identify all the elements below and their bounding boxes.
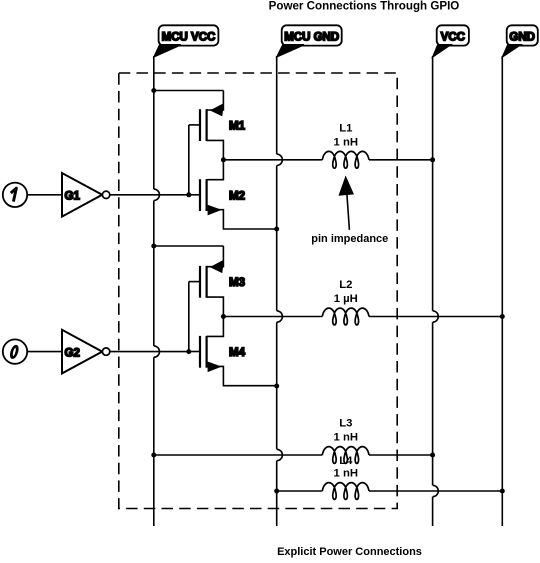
svg-text:pin impedance: pin impedance <box>311 233 388 245</box>
wire output2 to L2 <box>223 316 322 318</box>
svg-text:L1: L1 <box>339 122 352 134</box>
junction MCU VCC / L3 wire <box>151 453 156 458</box>
wire G2 output to gate node 2 <box>110 351 189 353</box>
VCC rail <box>433 56 439 526</box>
svg-text:L4: L4 <box>339 455 353 467</box>
wire L2 to GND <box>369 316 502 318</box>
svg-text:1 µH: 1 µH <box>334 293 358 305</box>
wire L4 to GND <box>369 490 502 492</box>
svg-text:M4: M4 <box>229 347 246 359</box>
net label GND <box>503 25 538 56</box>
junction GND / L2 <box>500 314 505 319</box>
node output 1 (M1/M2 drains) <box>221 157 226 162</box>
net label VCC <box>433 25 469 56</box>
inductor L2 <box>322 308 369 325</box>
input source 1 <box>3 183 27 207</box>
svg-text:G2: G2 <box>65 347 80 359</box>
inductor L4 <box>322 483 369 500</box>
transistor M1 (PMOS) <box>189 91 246 160</box>
wire output1 to L1 <box>223 159 322 161</box>
inductor L3 <box>322 447 369 464</box>
wire 1 to G1 <box>27 194 62 196</box>
svg-text:L2: L2 <box>339 279 352 291</box>
wire G1 output to gate node 1 <box>110 194 189 196</box>
annotation: pin impedance arrow <box>340 178 353 230</box>
wire 0 to G2 <box>27 351 62 353</box>
junction MCU VCC / M1 source <box>151 88 156 93</box>
wire L1 to VCC <box>369 159 433 161</box>
junction MCU GND / M2 source <box>274 227 279 232</box>
svg-text:1 nH: 1 nH <box>334 432 358 444</box>
GND rail <box>501 56 503 526</box>
junction gate node 1 <box>186 192 191 197</box>
wire MCU GND to L4 <box>277 490 323 492</box>
inverter G2 <box>62 330 110 374</box>
transistor M3 (PMOS) <box>189 246 245 317</box>
MCU VCC rail <box>154 56 160 526</box>
svg-text:Power Connections Through GPIO: Power Connections Through GPIO <box>269 0 460 13</box>
svg-text:MCU GND: MCU GND <box>284 31 339 43</box>
svg-text:L3: L3 <box>339 418 352 430</box>
junction MCU GND / M4 source <box>274 384 279 389</box>
transistor M4 (NMOS) <box>189 317 277 386</box>
transistor M2 (NMOS) <box>189 160 277 229</box>
MCU GND rail <box>277 56 283 526</box>
svg-text:1 nH: 1 nH <box>334 468 358 480</box>
gate wire node1 (M1+M2 gates) <box>188 125 190 195</box>
input source 0 <box>3 339 27 363</box>
svg-text:VCC: VCC <box>441 31 465 43</box>
node output 2 (M3/M4 drains) <box>221 314 226 319</box>
wire MCU VCC to M1 source <box>154 90 224 92</box>
wire MCU VCC to M3 source <box>154 245 224 247</box>
junction VCC / L3 <box>430 453 435 458</box>
junction GND / L4 <box>500 489 505 494</box>
inductor L1 <box>322 151 369 168</box>
svg-text:G1: G1 <box>65 191 81 203</box>
svg-text:M1: M1 <box>229 121 246 133</box>
inverter G1 <box>62 173 110 217</box>
svg-text:M2: M2 <box>229 190 245 202</box>
junction MCU GND / L4 wire <box>274 489 279 494</box>
svg-text:1 nH: 1 nH <box>334 136 358 148</box>
svg-text:GND: GND <box>509 31 535 43</box>
svg-text:M3: M3 <box>229 277 245 289</box>
net label MCU VCC <box>154 25 218 56</box>
junction VCC / L1 <box>430 157 435 162</box>
net label MCU GND <box>277 25 342 56</box>
gate wire node2 (M3+M4 gates) <box>188 282 190 352</box>
svg-text:MCU VCC: MCU VCC <box>162 31 216 43</box>
junction gate node 2 <box>186 349 191 354</box>
wire L3 to VCC <box>369 454 433 456</box>
wire MCU VCC to L3 <box>154 454 322 456</box>
junction MCU VCC / M3 source <box>151 244 156 249</box>
MCU boundary (dashed box) <box>119 73 397 509</box>
svg-text:Explicit Power Connections: Explicit Power Connections <box>277 546 422 558</box>
